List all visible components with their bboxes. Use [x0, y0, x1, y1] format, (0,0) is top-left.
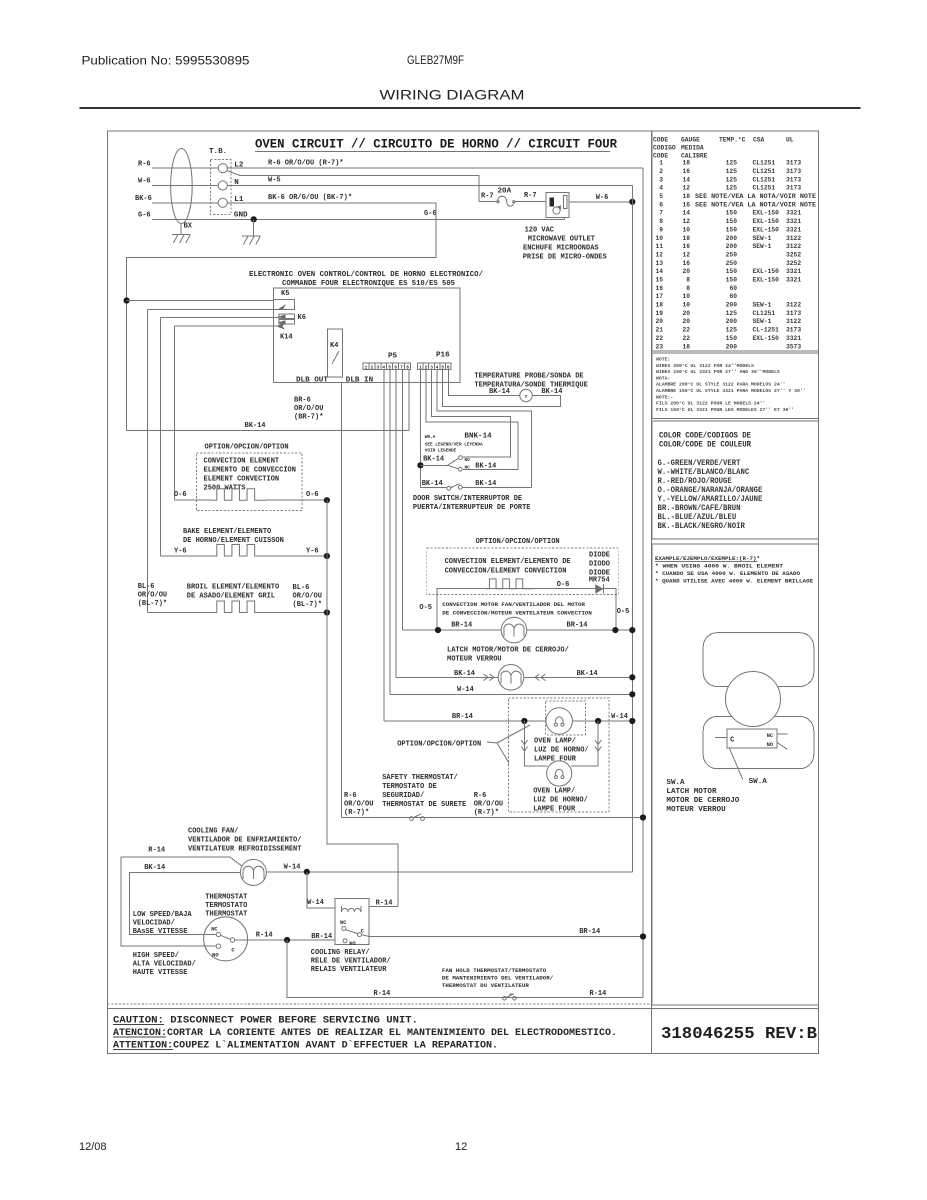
svg-text:LOW SPEED/BAJA: LOW SPEED/BAJA [133, 911, 193, 919]
svg-text:BR-14: BR-14 [451, 622, 472, 630]
svg-text:5: 5 [441, 365, 444, 370]
svg-text:200: 200 [726, 343, 738, 350]
svg-text:Y.-YELLOW/AMARILLO/JAUNE: Y.-YELLOW/AMARILLO/JAUNE [658, 495, 763, 504]
latch motor figure motor circle [726, 672, 781, 727]
svg-text:ATENCION:CORTAR LA CORIENTE AN: ATENCION:CORTAR LA CORIENTE ANTES DE REA… [113, 1028, 617, 1039]
svg-text:SW.A: SW.A [666, 779, 685, 787]
svg-text:12: 12 [682, 185, 690, 192]
temperature probe sensor [520, 389, 532, 401]
wire R-6 into L2 terminal [152, 167, 218, 169]
svg-text:3321: 3321 [786, 226, 801, 233]
svg-text:UL: UL [786, 137, 794, 144]
svg-text:SEGURIDAD/: SEGURIDAD/ [382, 792, 424, 800]
svg-text:K14: K14 [280, 334, 293, 342]
svg-text:MICROWAVE OUTLET: MICROWAVE OUTLET [528, 235, 595, 243]
svg-text:ALAMBRE 200°C UL STYLE 3122 PA: ALAMBRE 200°C UL STYLE 3122 PARA MODELOS… [656, 382, 786, 388]
svg-text:FAN HOLD THERMOSTAT/TERMOSTATO: FAN HOLD THERMOSTAT/TERMOSTATO [442, 967, 547, 974]
svg-text:3173: 3173 [786, 176, 801, 183]
svg-text:SAFETY THERMOSTAT/: SAFETY THERMOSTAT/ [382, 774, 458, 782]
svg-text:BK-14: BK-14 [245, 422, 266, 430]
cable sheath BX oval [171, 149, 193, 224]
svg-text:200: 200 [726, 243, 738, 250]
wire P5 pin drop to latch motor row [395, 370, 397, 678]
svg-text:3173: 3173 [786, 185, 801, 192]
svg-text:BR-14: BR-14 [579, 928, 600, 936]
svg-text:P5: P5 [388, 353, 398, 361]
svg-text:O-6: O-6 [174, 491, 187, 499]
node door switch common junction [417, 462, 423, 468]
svg-text:LUZ DE HORNO/: LUZ DE HORNO/ [534, 747, 589, 755]
svg-text:P16: P16 [436, 352, 450, 360]
svg-text:ALAMBRE 150°C UL STYLE 3321 PA: ALAMBRE 150°C UL STYLE 3321 PARA MODELOS… [656, 388, 806, 394]
ground symbol at GND [253, 219, 255, 235]
svg-text:CL1251: CL1251 [753, 185, 776, 192]
svg-text:DE HORNO/ELEMENT CUISSON: DE HORNO/ELEMENT CUISSON [183, 537, 284, 545]
svg-text:13: 13 [655, 260, 663, 267]
cooling fan motor M3 [240, 859, 266, 885]
svg-text:EXL-150: EXL-150 [753, 268, 780, 275]
svg-text:16: 16 [682, 201, 690, 208]
svg-text:2: 2 [659, 168, 663, 175]
svg-text:22: 22 [655, 335, 663, 342]
svg-text:HIGH SPEED/: HIGH SPEED/ [133, 952, 179, 960]
node safety thermostat at line bus [640, 814, 646, 820]
svg-text:RELAIS VENTILATEUR: RELAIS VENTILATEUR [311, 966, 387, 974]
svg-text:BK-6: BK-6 [135, 195, 152, 203]
svg-text:3122: 3122 [786, 318, 801, 325]
svg-text:BR-14: BR-14 [311, 933, 332, 941]
svg-text:WIRES 150°C UL 3321 FOR 27'' A: WIRES 150°C UL 3321 FOR 27'' AND 30''MOD… [656, 369, 780, 375]
svg-text:3173: 3173 [786, 168, 801, 175]
svg-text:200: 200 [726, 302, 738, 309]
svg-text:CL1251: CL1251 [753, 168, 776, 175]
svg-text:3321: 3321 [786, 218, 801, 225]
svg-text:BK-14: BK-14 [144, 864, 165, 872]
svg-text:OR/O/OU: OR/O/OU [474, 801, 503, 809]
svg-text:3173: 3173 [786, 160, 801, 167]
svg-text:150: 150 [726, 335, 738, 342]
safety thermostat switch S2 [410, 817, 414, 821]
wire safety thermostat row [341, 817, 643, 819]
wire L2 R-6 feeder to right bus [227, 167, 643, 169]
svg-text:LAMPE FOUR: LAMPE FOUR [533, 806, 576, 814]
connector chevrons lamp left drop [521, 740, 527, 745]
svg-text:Publication No: 5995530895: Publication No: 5995530895 [82, 54, 250, 68]
svg-text:22: 22 [682, 335, 690, 342]
svg-text:200: 200 [726, 235, 738, 242]
svg-text:DE CONVECCION/MOTEUR VENTELATE: DE CONVECCION/MOTEUR VENTELATEUR CONVECT… [442, 609, 592, 616]
svg-text:R-6: R-6 [344, 792, 357, 800]
svg-text:WR.A: WR.A [425, 435, 436, 440]
svg-text:SEE NOTE/VEA LA NOTA/VOIR NOTE: SEE NOTE/VEA LA NOTA/VOIR NOTE [695, 193, 816, 200]
svg-text:20: 20 [682, 318, 690, 325]
wire relay common to line bus [362, 935, 370, 937]
svg-text:DE MANTENIMIENTO DEL VENTILADO: DE MANTENIMIENTO DEL VENTILADOR/ [442, 975, 554, 982]
svg-text:BK-6 OR/G/OU (BK-7)*: BK-6 OR/G/OU (BK-7)* [268, 194, 352, 202]
thermostat blade [221, 935, 231, 939]
svg-text:C: C [730, 737, 734, 745]
svg-text:OR/O/OU: OR/O/OU [138, 592, 167, 600]
svg-text:10: 10 [682, 293, 690, 300]
SW.A pointer line [729, 748, 743, 779]
header rule [80, 107, 861, 109]
wire BK-14 row from L1 bus [127, 430, 409, 432]
svg-text:WIRING DIAGRAM: WIRING DIAGRAM [380, 87, 525, 103]
svg-text:SEW-1: SEW-1 [753, 243, 772, 250]
svg-text:OVEN LAMP/: OVEN LAMP/ [534, 738, 576, 746]
wire convection motor row [403, 629, 633, 631]
svg-text:W-14: W-14 [307, 899, 324, 907]
svg-text:15: 15 [655, 277, 663, 284]
wire DLB to safety thermostat [340, 383, 342, 818]
svg-text:3: 3 [659, 176, 663, 183]
svg-text:ELECTRONIC OVEN CONTROL/CONTRO: ELECTRONIC OVEN CONTROL/CONTROL DE HORNO… [249, 271, 483, 279]
wire P5 pin drop to BK-14 row [408, 370, 410, 431]
convection option element heater on motor box top [486, 579, 533, 589]
svg-text:EXL-150: EXL-150 [753, 277, 780, 284]
svg-text:20A: 20A [498, 188, 512, 196]
svg-text:23: 23 [655, 343, 663, 350]
wire W-6 outlet to neutral bus [569, 201, 632, 203]
schematic / right panel divider [651, 131, 653, 1054]
svg-text:MEDIDA: MEDIDA [681, 145, 704, 152]
wire W-14 to cooling relay coil [307, 872, 335, 908]
color code entries [658, 459, 763, 531]
svg-text:BNK-14: BNK-14 [464, 433, 492, 441]
svg-text:1: 1 [419, 365, 422, 370]
svg-text:1: 1 [659, 160, 663, 167]
svg-text:20: 20 [682, 310, 690, 317]
svg-text:TERMOSTATO DE: TERMOSTATO DE [382, 783, 437, 791]
ground symbol for BX cable [180, 224, 182, 235]
svg-text:FILS 150°C UL 3321 POUR LES MO: FILS 150°C UL 3321 POUR LES MODELES 27''… [656, 407, 794, 413]
relay contact K14 [174, 325, 277, 327]
svg-text:* CUANDO SE USA 4000 W. ELEMEN: * CUANDO SE USA 4000 W. ELEMENTO DE ASAD… [655, 570, 801, 577]
svg-text:VELOCIDAD/: VELOCIDAD/ [133, 920, 175, 928]
svg-text:TEMP.°C: TEMP.°C [719, 136, 746, 144]
svg-text:VOIR LEGENDE: VOIR LEGENDE [425, 449, 457, 454]
svg-text:8: 8 [406, 365, 409, 370]
svg-text:EXL-150: EXL-150 [753, 226, 780, 233]
svg-text:NC: NC [465, 466, 471, 471]
svg-text:SEE LEGEND/VER LEYENDA: SEE LEGEND/VER LEYENDA [425, 442, 483, 447]
svg-text:5: 5 [659, 193, 663, 200]
svg-text:VENTILATEUR REFROIDISSEMENT: VENTILATEUR REFROIDISSEMENT [188, 846, 301, 854]
svg-text:3321: 3321 [786, 277, 801, 284]
svg-text:GLEB27M9F: GLEB27M9F [407, 55, 464, 67]
oven lamp dashed option box [508, 698, 609, 812]
svg-text:11: 11 [655, 243, 663, 250]
svg-text:BK-14: BK-14 [475, 480, 496, 488]
svg-text:18: 18 [682, 160, 690, 167]
svg-text:COLOR/CODE DE COULEUR: COLOR/CODE DE COULEUR [659, 441, 751, 450]
convection motor box [437, 589, 616, 630]
connector P16 with pins 1-6 [418, 363, 451, 370]
svg-text:ENCHUFE MICROONDAS: ENCHUFE MICROONDAS [523, 244, 599, 252]
fan hold thermostat switch S4 [503, 997, 507, 1001]
svg-text:16: 16 [682, 260, 690, 267]
svg-text:NOTE:-: NOTE:- [656, 394, 673, 400]
svg-text:318046255 REV:B: 318046255 REV:B [661, 1025, 817, 1044]
svg-text:MOTOR DE CERROJO: MOTOR DE CERROJO [666, 797, 739, 805]
svg-text:THERMOSTAT: THERMOSTAT [205, 894, 247, 902]
svg-text:CODIGO: CODIGO [653, 145, 676, 152]
svg-text:3321: 3321 [786, 268, 801, 275]
wire K6 bus down to bake element [160, 317, 162, 556]
svg-text:NO: NO [465, 458, 471, 463]
svg-text:OVEN LAMP/: OVEN LAMP/ [533, 788, 575, 796]
svg-text:SEW-1: SEW-1 [753, 302, 772, 309]
svg-text:NC: NC [767, 733, 774, 739]
node W-14 fan junction [304, 869, 310, 875]
svg-text:GAUGE: GAUGE [681, 137, 700, 144]
svg-text:CSA: CSA [753, 137, 765, 144]
svg-text:WIRES 200°C UL 3122 FOR 24''MO: WIRES 200°C UL 3122 FOR 24''MODELS [656, 363, 754, 369]
bake element heater [161, 555, 214, 557]
svg-text:NC: NC [211, 927, 218, 933]
svg-text:2: 2 [425, 365, 428, 370]
svg-text:GND: GND [234, 212, 248, 220]
node relay row at line bus [640, 933, 646, 939]
svg-text:RELE DE VENTILADOR/: RELE DE VENTILADOR/ [311, 958, 391, 966]
diode MR754 symbol [595, 584, 603, 593]
cooling relay K1 box [335, 899, 369, 945]
svg-text:18: 18 [682, 343, 690, 350]
svg-text:12: 12 [682, 218, 690, 225]
wire K14 bus down to convection element [173, 326, 175, 500]
svg-text:16: 16 [682, 243, 690, 250]
svg-text:SEE NOTE/VEA LA NOTA/VOIR NOTE: SEE NOTE/VEA LA NOTA/VOIR NOTE [695, 201, 816, 208]
electronic oven control box U1 [274, 288, 461, 383]
svg-text:R-7: R-7 [524, 192, 537, 200]
node conv motor box left [435, 627, 441, 633]
svg-text:16: 16 [682, 168, 690, 175]
schematic bottom divider [108, 1003, 652, 1005]
svg-text:14: 14 [682, 176, 690, 183]
svg-text:3122: 3122 [786, 243, 801, 250]
svg-text:TEMPERATURE PROBE/SONDA DE: TEMPERATURE PROBE/SONDA DE [474, 373, 583, 381]
svg-text:3252: 3252 [786, 260, 801, 267]
svg-text:4: 4 [382, 365, 385, 370]
svg-text:PRISE DE MICRO-ONDES: PRISE DE MICRO-ONDES [523, 253, 607, 261]
svg-text:BL-6: BL-6 [138, 583, 155, 591]
svg-text:3573: 3573 [786, 343, 801, 350]
fuse 20A symbol [479, 201, 498, 203]
svg-text:4: 4 [659, 185, 663, 192]
wire P5 pin drop to oven lamp circuit [383, 370, 385, 721]
wire R-14 fan high speed [121, 857, 243, 946]
svg-text:R-6: R-6 [138, 160, 151, 168]
svg-text:6: 6 [659, 201, 663, 208]
svg-text:R-14: R-14 [148, 847, 165, 855]
wire BK-6 into L1 terminal [152, 202, 218, 204]
switch stub left [715, 736, 727, 738]
svg-text:BX: BX [184, 223, 193, 231]
terminal L1 [218, 198, 227, 207]
svg-text:10: 10 [655, 235, 663, 242]
svg-text:OPTION/OPCION/OPTION: OPTION/OPCION/OPTION [205, 443, 289, 451]
connector chevrons lamp right drop [595, 740, 601, 745]
color code box [652, 421, 819, 539]
svg-text:(BL-7)*: (BL-7)* [293, 601, 322, 609]
wire W-14 row [390, 693, 632, 695]
svg-text:R-14: R-14 [590, 990, 607, 998]
relay contact circles [342, 927, 346, 931]
svg-text:125: 125 [726, 176, 738, 183]
svg-text:O.-ORANGE/NARANJA/ORANGE: O.-ORANGE/NARANJA/ORANGE [658, 486, 763, 495]
svg-text:(R-7)*: (R-7)* [474, 809, 499, 817]
svg-text:Y-6: Y-6 [306, 548, 319, 556]
svg-text:NO: NO [349, 941, 356, 947]
oven lamp 1 [546, 708, 572, 734]
wire P16 pin drop to door switch common [419, 370, 421, 488]
svg-text:BK-14: BK-14 [577, 670, 598, 678]
svg-text:CAUTION: DISCONNECT POWER BEFO: CAUTION: DISCONNECT POWER BEFORE SERVICI… [113, 1016, 418, 1027]
wire fan hold thermostat bottom row [287, 940, 643, 998]
convection element dashed option box (right) [427, 548, 619, 595]
svg-text:60: 60 [729, 285, 737, 292]
wire P5 pin drop to convection motor row [402, 370, 404, 630]
svg-text:R-14: R-14 [256, 932, 273, 940]
node convection element junction [324, 497, 330, 503]
svg-text:THERMOSTAT DU VENTILATEUR: THERMOSTAT DU VENTILATEUR [442, 982, 529, 989]
svg-text:MOTEUR VERROU: MOTEUR VERROU [666, 806, 726, 814]
node W-6 / neutral junction [629, 199, 635, 205]
svg-text:150: 150 [726, 277, 738, 284]
svg-text:3173: 3173 [786, 327, 801, 334]
svg-text:3252: 3252 [786, 251, 801, 258]
wire K6 bus down to broil element [147, 310, 149, 613]
svg-text:(BR-7)*: (BR-7)* [294, 414, 323, 422]
svg-text:8: 8 [686, 285, 690, 292]
svg-text:BAsSE VITESSE: BAsSE VITESSE [133, 928, 188, 936]
svg-text:G.-GREEN/VERDE/VERT: G.-GREEN/VERDE/VERT [658, 459, 741, 468]
svg-text:NO: NO [212, 953, 219, 959]
wire oven lamp row BR-14 [384, 720, 632, 722]
svg-text:150: 150 [726, 226, 738, 233]
wire gauge table box [652, 131, 819, 351]
svg-text:3: 3 [376, 365, 379, 370]
node conv motor at neutral bus [629, 627, 635, 633]
svg-text:W-14: W-14 [284, 864, 301, 872]
svg-text:14: 14 [655, 268, 663, 275]
wire L2 branch to fuse (diagonal + horizontal + drop) [227, 171, 479, 202]
svg-text:7: 7 [659, 210, 663, 217]
svg-text:CODE: CODE [653, 137, 668, 144]
svg-text:18: 18 [655, 302, 663, 309]
svg-text:150: 150 [726, 218, 738, 225]
svg-text:THERMOSTAT DE SURETE: THERMOSTAT DE SURETE [382, 801, 466, 809]
svg-text:9: 9 [659, 226, 663, 233]
svg-text:17: 17 [655, 293, 663, 300]
elements bus to cooling relay [327, 500, 398, 906]
svg-text:150: 150 [726, 268, 738, 275]
svg-text:PUERTA/INTERRUPTEUR DE PORTE: PUERTA/INTERRUPTEUR DE PORTE [413, 504, 531, 512]
node bake element junction [324, 553, 330, 559]
svg-text:5: 5 [388, 365, 391, 370]
svg-text:VENTILADOR DE ENFRIAMIENTO/: VENTILADOR DE ENFRIAMIENTO/ [188, 837, 301, 845]
svg-text:W-14: W-14 [457, 686, 474, 694]
connector chevrons latch right [535, 674, 540, 681]
svg-text:250: 250 [726, 260, 738, 267]
svg-text:COOLING RELAY/: COOLING RELAY/ [311, 949, 370, 957]
svg-text:BR-14: BR-14 [452, 713, 473, 721]
svg-text:TERMOSTATO: TERMOSTATO [205, 902, 247, 910]
svg-text:R-14: R-14 [374, 990, 391, 998]
svg-text:K5: K5 [281, 290, 289, 298]
svg-text:OR/O/OU: OR/O/OU [294, 405, 323, 413]
svg-text:3321: 3321 [786, 210, 801, 217]
svg-text:OPTION/OPCION/OPTION: OPTION/OPCION/OPTION [397, 741, 481, 749]
node lamp right junction [595, 718, 601, 724]
wire lamp 2 left drop [524, 721, 547, 766]
svg-text:W-6: W-6 [138, 178, 151, 186]
svg-text:EXL-150: EXL-150 [753, 218, 780, 225]
wire P16 to temperature probe [448, 370, 520, 396]
svg-text:SEW-1: SEW-1 [753, 318, 772, 325]
notes text lines [656, 357, 806, 413]
svg-text:19: 19 [655, 310, 663, 317]
svg-text:NOTE:: NOTE: [656, 357, 670, 363]
svg-text:OVEN CIRCUIT // CIRCUITO DE HO: OVEN CIRCUIT // CIRCUITO DE HORNO // CIR… [255, 137, 617, 152]
switch stub NC [777, 733, 788, 735]
title underline [255, 150, 610, 152]
svg-text:R-14: R-14 [376, 900, 393, 908]
convection motor M1 [501, 617, 527, 643]
svg-text:NO: NO [767, 742, 774, 748]
svg-text:1: 1 [365, 365, 368, 370]
wire door switch loop NO to P16 [432, 370, 511, 457]
svg-text:CL1251: CL1251 [753, 310, 776, 317]
svg-text:200: 200 [726, 318, 738, 325]
svg-text:21: 21 [655, 327, 663, 334]
svg-text:Y-6: Y-6 [174, 548, 187, 556]
svg-text:CL1251: CL1251 [753, 160, 776, 167]
svg-text:DLB OUT: DLB OUT [296, 377, 328, 385]
door switch S1 lower contacts [420, 487, 446, 489]
svg-text:2: 2 [371, 365, 374, 370]
example / latch motor box [652, 544, 819, 1005]
svg-text:6: 6 [447, 365, 450, 370]
svg-text:OR/O/OU: OR/O/OU [293, 593, 322, 601]
neutral bus W (vertical right) [631, 186, 633, 872]
latch motor M2 [498, 665, 524, 691]
wire P5 pin drop to W-14 row [389, 370, 391, 695]
svg-text:CL1251: CL1251 [753, 176, 776, 183]
svg-text:MR754: MR754 [589, 577, 610, 585]
wire BK-14 fan low speed [129, 872, 240, 934]
svg-text:ALTA VELOCIDAD/: ALTA VELOCIDAD/ [133, 961, 196, 969]
node K5 feed junction [124, 297, 130, 303]
svg-text:COOLING FAN/: COOLING FAN/ [188, 828, 238, 836]
svg-text:BK-14: BK-14 [422, 480, 443, 488]
wire G-6 ground run [152, 218, 564, 220]
node latch row at neutral bus [629, 674, 635, 680]
svg-text:8: 8 [659, 218, 663, 225]
svg-text:125: 125 [726, 160, 738, 167]
svg-text:10: 10 [682, 302, 690, 309]
svg-text:10: 10 [682, 226, 690, 233]
wire door switch loop NC to P16 [426, 370, 518, 470]
svg-text:SW.A: SW.A [749, 778, 768, 786]
svg-text:CALIBRE: CALIBRE [681, 153, 708, 160]
svg-text:BR.-BROWN/CAFE/BRUN: BR.-BROWN/CAFE/BRUN [658, 504, 741, 513]
wire lamp 2 right drop [571, 721, 598, 766]
svg-text:22: 22 [682, 327, 690, 334]
svg-text:CONVECTION ELEMENT: CONVECTION ELEMENT [204, 457, 280, 465]
svg-text:CODE: CODE [653, 153, 668, 160]
latch motor switch SW.A box [727, 729, 777, 748]
